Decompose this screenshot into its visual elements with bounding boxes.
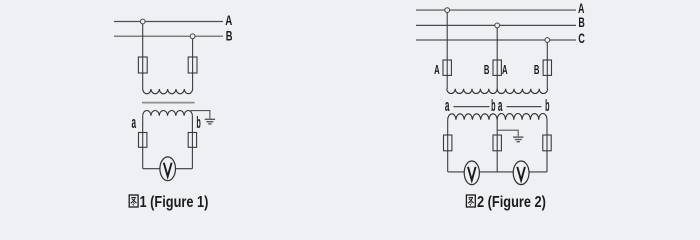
transformer TV3 primary winding [497,89,547,94]
svg-text:B: B [534,63,540,78]
bus line B (fig1) [114,35,223,37]
fuse F2 (primary, phase B) [188,57,197,73]
svg-text:1 (Figure 1): 1 (Figure 1) [140,194,209,212]
fuse F6 (phase B shared) [493,60,501,75]
transformer TV1 primary winding [143,89,193,94]
caption 图1 glyph (fig1) [129,195,138,207]
fuse F3 (secondary, a side) [139,133,147,148]
wire: bottom bus right segment [529,171,547,173]
wire: secondary a lead (TV2) [447,120,449,172]
svg-text:B: B [578,16,584,30]
wire: shared middle secondary lead [496,120,498,172]
wire: phase A drop (fig2) [446,13,448,89]
node: tap circle on bus C (fig2) [545,38,550,43]
svg-text:A: A [225,12,232,28]
svg-text:C: C [578,32,585,46]
fuse F1 (primary, phase A) [138,57,147,73]
svg-text:A: A [578,2,584,16]
transformer TV1 secondary winding [143,110,193,115]
svg-text:a: a [132,113,137,132]
transformer TV2 core bar [454,106,490,108]
wire: secondary a lead down [142,116,144,169]
svg-text:A: A [434,63,440,78]
svg-text:a: a [445,96,450,115]
fuse F9 (secondary middle) [493,135,501,151]
bus line B (fig2) [416,24,576,26]
wire: bottom bus middle segment [479,171,513,173]
fuse F10 (secondary right) [543,135,551,151]
wire: ground tap from middle lead [497,130,518,136]
wire: phase B drop (fig2) [496,28,498,89]
wire: secondary b lead (TV3) [546,120,548,172]
node: tap circle on bus B [190,34,195,39]
svg-text:a: a [498,96,503,115]
voltmeter PV2 [464,161,479,185]
svg-text:A: A [502,63,508,78]
voltmeter PV3 [513,161,529,185]
wire: phase A drop to fuse F1 [142,24,144,89]
wire: bottom bus left segment [448,171,465,173]
fuse F7 (phase C) [543,60,551,75]
transformer TV2 secondary winding [448,114,498,120]
fuse F8 (secondary left) [444,135,452,151]
svg-text:B: B [226,29,233,44]
transformer TV3 core bar [507,106,542,108]
fuse F4 (secondary, b side) [188,133,196,148]
svg-text:B: B [484,63,490,78]
svg-text:b: b [491,97,496,115]
wire: phase B drop to fuse F2 [192,39,194,89]
node: tap circle on bus B (fig2) [495,23,500,28]
transformer TV2 primary winding [447,89,497,94]
fuse F5 (phase A) [443,60,451,75]
ground symbol (fig2) [513,137,523,142]
svg-text:b: b [545,97,550,115]
wire: voltmeter to bottom right [175,168,192,170]
bus line A (fig2) [416,9,576,11]
svg-text:2 (Figure 2): 2 (Figure 2) [477,194,546,212]
node: tap circle on bus A (fig2) [445,8,450,13]
node: tap circle on bus A [140,19,145,24]
wire: bottom left to voltmeter [143,168,160,170]
svg-text:b: b [196,114,201,132]
ground symbol (fig1) [205,119,215,124]
voltmeter PV1 [160,157,176,181]
bus line C (fig2) [416,39,576,41]
transformer TV3 secondary winding [497,114,547,120]
bus line A (fig1) [114,21,223,23]
transformer TV1 core bar [142,102,195,104]
wire: secondary b lead down [191,116,193,169]
wire: secondary b to ground stem [191,111,210,119]
wire: phase C drop (fig2) [546,42,548,89]
caption 图2 glyph (fig2) [466,195,475,207]
